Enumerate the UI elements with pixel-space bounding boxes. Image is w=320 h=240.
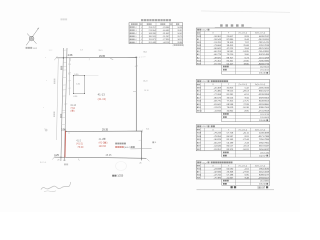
svg-text:-10.36: -10.36 bbox=[243, 107, 250, 109]
svg-text:85.143: 85.143 bbox=[227, 139, 234, 141]
svg-text:33.86: 33.86 bbox=[177, 42, 182, 44]
svg-text:29.35: 29.35 bbox=[102, 128, 109, 131]
svg-text:4.25: 4.25 bbox=[54, 154, 59, 157]
svg-text:-51.267: -51.267 bbox=[163, 36, 170, 38]
svg-text:-54.646: -54.646 bbox=[214, 146, 222, 148]
svg-text:-81.310: -81.310 bbox=[214, 63, 222, 65]
svg-text:-1.61: -1.61 bbox=[244, 169, 250, 171]
svg-text:-6: -6 bbox=[135, 39, 137, 41]
svg-text:4439.2537: 4439.2537 bbox=[259, 36, 270, 38]
svg-text:120.66: 120.66 bbox=[259, 120, 266, 122]
svg-text:231.40: 231.40 bbox=[259, 73, 266, 75]
svg-text:-5393.8860: -5393.8860 bbox=[258, 104, 270, 106]
svg-text:1964.4636: 1964.4636 bbox=[259, 169, 270, 171]
svg-text:-96.673: -96.673 bbox=[214, 97, 222, 99]
svg-text:120.6609: 120.6609 bbox=[260, 117, 270, 119]
svg-text:23.368: 23.368 bbox=[227, 172, 234, 174]
svg-text:6.95: 6.95 bbox=[245, 175, 250, 177]
svg-text:-7014.9991: -7014.9991 bbox=[258, 51, 270, 53]
svg-text:140: 140 bbox=[76, 84, 80, 86]
svg-text:21.937: 21.937 bbox=[227, 178, 234, 180]
svg-text:39.453: 39.453 bbox=[227, 45, 234, 47]
svg-text:): ) bbox=[107, 142, 108, 145]
svg-text:155.871: 155.871 bbox=[149, 39, 156, 41]
svg-text:1/250: 1/250 bbox=[117, 176, 123, 178]
svg-text:205.1436: 205.1436 bbox=[260, 152, 270, 154]
svg-text:213.904: 213.904 bbox=[149, 30, 157, 32]
svg-text:6.1: 6.1 bbox=[146, 129, 150, 131]
svg-text:4: 4 bbox=[141, 39, 142, 41]
svg-text:1352.7818: 1352.7818 bbox=[259, 45, 270, 47]
svg-text:Xn(Yn+1-Yn-1): Xn(Yn+1-Yn-1) bbox=[255, 33, 266, 35]
svg-text:79.109: 79.109 bbox=[227, 42, 234, 44]
svg-text:3.6: 3.6 bbox=[68, 74, 71, 76]
svg-text:-70.386: -70.386 bbox=[214, 178, 222, 180]
svg-text:-18.361: -18.361 bbox=[214, 36, 222, 38]
svg-text:41-2: 41-2 bbox=[202, 30, 207, 32]
svg-text:68.598: 68.598 bbox=[227, 104, 234, 106]
svg-text:4: 4 bbox=[141, 36, 142, 38]
svg-text:-23.386: -23.386 bbox=[163, 27, 170, 29]
svg-text:462.8024: 462.8024 bbox=[260, 66, 270, 68]
svg-text:41-2: 41-2 bbox=[202, 126, 207, 128]
svg-text:79.555: 79.555 bbox=[227, 91, 234, 93]
svg-text:8.44: 8.44 bbox=[245, 39, 250, 41]
svg-text:-6.51: -6.51 bbox=[244, 94, 250, 96]
svg-text:259.767: 259.767 bbox=[149, 27, 156, 29]
svg-text:25.607: 25.607 bbox=[227, 36, 234, 38]
svg-text:-90.841: -90.841 bbox=[214, 48, 222, 50]
svg-text:2.68: 2.68 bbox=[68, 54, 73, 57]
svg-text:-14.95: -14.95 bbox=[243, 51, 250, 53]
svg-text:-59.543: -59.543 bbox=[214, 39, 222, 41]
svg-text:B2: B2 bbox=[197, 57, 200, 59]
svg-text:-2674.6200: -2674.6200 bbox=[258, 39, 270, 41]
svg-text:25.05: 25.05 bbox=[106, 155, 112, 157]
svg-text:6.74: 6.74 bbox=[245, 57, 250, 59]
svg-text:8.93: 8.93 bbox=[245, 36, 250, 38]
svg-text:4.96: 4.96 bbox=[73, 96, 78, 98]
svg-text:J5: J5 bbox=[139, 162, 142, 164]
svg-text:(Yn+1-Yn-1): (Yn+1-Yn-1) bbox=[239, 129, 248, 131]
svg-text:29.65: 29.65 bbox=[99, 55, 106, 58]
svg-text:3672.6347: 3672.6347 bbox=[259, 146, 270, 148]
svg-text:88.707: 88.707 bbox=[227, 57, 234, 59]
svg-text:-47.742: -47.742 bbox=[214, 175, 222, 177]
svg-text:-2: -2 bbox=[135, 27, 137, 29]
svg-text:-4: -4 bbox=[135, 33, 137, 35]
svg-text:35.1: 35.1 bbox=[98, 50, 103, 52]
svg-text:7350.7994: 7350.7994 bbox=[259, 139, 270, 141]
svg-text:-27.92: -27.92 bbox=[243, 172, 250, 174]
svg-text:4.3: 4.3 bbox=[63, 160, 67, 162]
svg-text:-30.876: -30.876 bbox=[214, 139, 222, 141]
svg-text:80.587: 80.587 bbox=[227, 136, 234, 138]
svg-text:75.210: 75.210 bbox=[227, 54, 234, 56]
svg-text:-77.930: -77.930 bbox=[163, 39, 170, 41]
svg-text:W15: W15 bbox=[197, 45, 202, 47]
svg-text:8449.8553: 8449.8553 bbox=[259, 101, 270, 103]
svg-text:6: 6 bbox=[155, 142, 157, 144]
svg-text:-7.43: -7.43 bbox=[244, 142, 250, 144]
svg-text:W10: W10 bbox=[197, 169, 202, 171]
svg-text:(Yn+1-Yn-1): (Yn+1-Yn-1) bbox=[239, 33, 248, 35]
svg-text:57.718: 57.718 bbox=[227, 133, 234, 135]
svg-text:41-3: 41-3 bbox=[143, 80, 148, 82]
svg-text:W10: W10 bbox=[197, 175, 202, 177]
svg-text:8.0 1-4: 8.0 1-4 bbox=[40, 162, 47, 164]
svg-text:57.188: 57.188 bbox=[227, 175, 234, 177]
svg-text:-9571.7388: -9571.7388 bbox=[258, 136, 270, 138]
svg-text:7.97: 7.97 bbox=[245, 42, 250, 44]
svg-text:B12: B12 bbox=[33, 48, 38, 50]
svg-text:25.68: 25.68 bbox=[243, 45, 249, 47]
svg-text:(: ( bbox=[70, 111, 71, 113]
svg-text:120.66: 120.66 bbox=[99, 145, 107, 148]
svg-text:5932.7900: 5932.7900 bbox=[259, 142, 270, 144]
svg-text:Xn(Yn+1-Yn-1): Xn(Yn+1-Yn-1) bbox=[255, 165, 266, 167]
svg-text:-28.13: -28.13 bbox=[243, 91, 250, 93]
svg-text:-79.956: -79.956 bbox=[214, 136, 222, 138]
svg-text:8616.6217: 8616.6217 bbox=[259, 91, 270, 93]
svg-text:-77.268: -77.268 bbox=[214, 94, 222, 96]
svg-text:-3239.9358: -3239.9358 bbox=[258, 94, 270, 96]
svg-text:-1201.4268: -1201.4268 bbox=[258, 57, 270, 59]
svg-text:31.2: 31.2 bbox=[49, 50, 53, 52]
svg-text:41-14: 41-14 bbox=[70, 105, 77, 107]
svg-text:-75.480: -75.480 bbox=[214, 91, 222, 93]
svg-text:-5783.6107: -5783.6107 bbox=[258, 178, 270, 180]
svg-text:14.591: 14.591 bbox=[227, 51, 234, 53]
svg-text:Xn(Yn+1-Yn-1): Xn(Yn+1-Yn-1) bbox=[255, 84, 266, 86]
svg-text:-66.237: -66.237 bbox=[214, 142, 222, 144]
svg-text:56.199: 56.199 bbox=[227, 142, 234, 144]
svg-text:47.223: 47.223 bbox=[227, 48, 234, 50]
svg-text:): ) bbox=[183, 45, 184, 47]
svg-text:77.355: 77.355 bbox=[227, 101, 234, 103]
svg-text:(41-2: (41-2 bbox=[99, 142, 105, 145]
svg-text:J8: J8 bbox=[57, 160, 60, 162]
svg-text:210.6882: 210.6882 bbox=[260, 180, 270, 182]
svg-text:-66.779: -66.779 bbox=[214, 54, 222, 56]
svg-text:60.590: 60.590 bbox=[227, 169, 234, 171]
svg-text:-7: -7 bbox=[135, 42, 137, 44]
svg-text:9289.5077: 9289.5077 bbox=[259, 175, 270, 177]
svg-text:-27.44: -27.44 bbox=[243, 139, 250, 141]
svg-text:41-2: 41-2 bbox=[99, 138, 104, 141]
svg-text:-91.602: -91.602 bbox=[163, 33, 170, 35]
svg-text:-3: -3 bbox=[135, 30, 137, 32]
svg-text:(41-13): (41-13) bbox=[98, 97, 106, 101]
svg-text:-60.483: -60.483 bbox=[163, 30, 170, 32]
svg-text:-32.946: -32.946 bbox=[214, 172, 222, 174]
svg-text:5452.4169: 5452.4169 bbox=[259, 172, 270, 174]
svg-text:76.619: 76.619 bbox=[227, 107, 234, 109]
svg-text:41-2: 41-2 bbox=[202, 81, 207, 83]
svg-text:5249.4839: 5249.4839 bbox=[259, 133, 270, 135]
svg-text:-13.765: -13.765 bbox=[214, 42, 222, 44]
svg-text:33.75: 33.75 bbox=[177, 36, 182, 38]
svg-text:B1: B1 bbox=[197, 39, 200, 41]
svg-text:22.13: 22.13 bbox=[243, 146, 249, 148]
svg-text:241.3218: 241.3218 bbox=[260, 114, 270, 116]
svg-text:-69.770: -69.770 bbox=[214, 101, 222, 103]
svg-text:-79.233: -79.233 bbox=[214, 133, 222, 135]
svg-text:4: 4 bbox=[141, 27, 142, 29]
svg-text:7.62: 7.62 bbox=[70, 108, 75, 110]
svg-text:-75.452: -75.452 bbox=[214, 60, 222, 62]
svg-text:83.461: 83.461 bbox=[227, 60, 234, 62]
svg-text:(Yn+1-Yn-1): (Yn+1-Yn-1) bbox=[239, 84, 248, 86]
svg-text:4: 4 bbox=[141, 30, 142, 32]
svg-text:): ) bbox=[74, 111, 75, 113]
svg-text:-7286.9396: -7286.9396 bbox=[258, 60, 270, 62]
svg-text:B-6: B-6 bbox=[144, 51, 148, 53]
svg-text:84.517: 84.517 bbox=[227, 146, 234, 148]
svg-text:-5: -5 bbox=[135, 36, 137, 38]
svg-text:231.4012: 231.4012 bbox=[260, 70, 270, 72]
svg-text:(304-2): (304-2) bbox=[124, 147, 131, 149]
svg-text:(Yn+1-Yn-1): (Yn+1-Yn-1) bbox=[239, 165, 248, 167]
svg-text:9023.1484: 9023.1484 bbox=[259, 54, 270, 56]
svg-text:31.853: 31.853 bbox=[227, 87, 234, 89]
svg-text:-5970.5655: -5970.5655 bbox=[258, 48, 270, 50]
svg-text:-7915.1475: -7915.1475 bbox=[258, 42, 270, 44]
svg-text:34.11: 34.11 bbox=[177, 39, 182, 41]
svg-text:-23.838: -23.838 bbox=[214, 169, 222, 171]
svg-text:W19: W19 bbox=[197, 36, 202, 38]
svg-text:27.99: 27.99 bbox=[243, 104, 249, 106]
svg-text:4: 4 bbox=[141, 42, 142, 44]
svg-text:41-13: 41-13 bbox=[98, 92, 106, 96]
svg-text:W13: W13 bbox=[197, 60, 202, 62]
svg-text:168.336: 168.336 bbox=[149, 33, 156, 35]
svg-text:-17.75: -17.75 bbox=[243, 101, 250, 103]
svg-text:34.38: 34.38 bbox=[177, 27, 182, 29]
svg-text:6929.8303: 6929.8303 bbox=[259, 97, 270, 99]
svg-text:-60.703: -60.703 bbox=[214, 51, 222, 53]
svg-text:33.91: 33.91 bbox=[177, 30, 182, 32]
svg-text:4: 4 bbox=[141, 33, 142, 35]
svg-text:16.10: 16.10 bbox=[144, 90, 149, 92]
svg-text:-44.116: -44.116 bbox=[163, 42, 169, 44]
svg-text:180.520: 180.520 bbox=[149, 36, 156, 38]
svg-text:-1585.3594: -1585.3594 bbox=[258, 87, 270, 89]
svg-text:-74.675: -74.675 bbox=[214, 107, 222, 109]
svg-text:201.448: 201.448 bbox=[149, 42, 156, 44]
svg-text:33.556: 33.556 bbox=[227, 97, 234, 99]
svg-text:75.00: 75.00 bbox=[77, 146, 84, 149]
svg-text:-91.951: -91.951 bbox=[214, 149, 222, 151]
svg-text:87.880: 87.880 bbox=[227, 39, 234, 41]
svg-text:102.57: 102.57 bbox=[259, 155, 266, 157]
svg-text:(: ( bbox=[173, 45, 174, 47]
svg-text:-73.666: -73.666 bbox=[214, 45, 222, 47]
svg-text:34.02: 34.02 bbox=[177, 33, 182, 35]
svg-text:-11.934: -11.934 bbox=[214, 111, 222, 113]
svg-text:81.281: 81.281 bbox=[227, 94, 234, 96]
svg-text:9.60: 9.60 bbox=[245, 54, 250, 56]
svg-text:Xn(Yn+1-Yn-1): Xn(Yn+1-Yn-1) bbox=[255, 129, 266, 131]
svg-text:-49.820: -49.820 bbox=[214, 57, 222, 59]
svg-text:22.80: 22.80 bbox=[243, 60, 249, 62]
svg-text:6.8: 6.8 bbox=[80, 50, 84, 52]
svg-text:41-2: 41-2 bbox=[202, 162, 207, 164]
svg-text:-81.841: -81.841 bbox=[214, 104, 222, 106]
svg-text:-20.469: -20.469 bbox=[214, 87, 222, 89]
svg-text:9386.7006: 9386.7006 bbox=[259, 107, 270, 109]
svg-text:KE1: KE1 bbox=[197, 42, 202, 44]
svg-text:560.97: 560.97 bbox=[258, 186, 266, 189]
svg-text:-20.11: -20.11 bbox=[243, 133, 250, 135]
